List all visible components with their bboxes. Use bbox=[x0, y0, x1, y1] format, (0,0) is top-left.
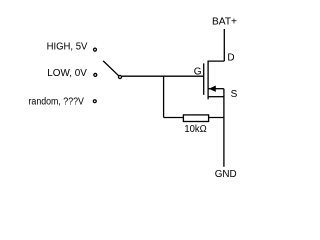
svg-text:BAT+: BAT+ bbox=[212, 16, 237, 27]
svg-text:GND: GND bbox=[215, 169, 237, 180]
svg-text:HIGH, 5V: HIGH, 5V bbox=[47, 42, 88, 53]
svg-text:LOW, 0V: LOW, 0V bbox=[47, 68, 87, 79]
svg-text:G: G bbox=[194, 67, 202, 78]
svg-text:S: S bbox=[231, 89, 238, 100]
svg-text:D: D bbox=[227, 52, 234, 63]
svg-text:10kΩ: 10kΩ bbox=[184, 124, 207, 135]
svg-text:random, ???V: random, ???V bbox=[29, 97, 85, 108]
